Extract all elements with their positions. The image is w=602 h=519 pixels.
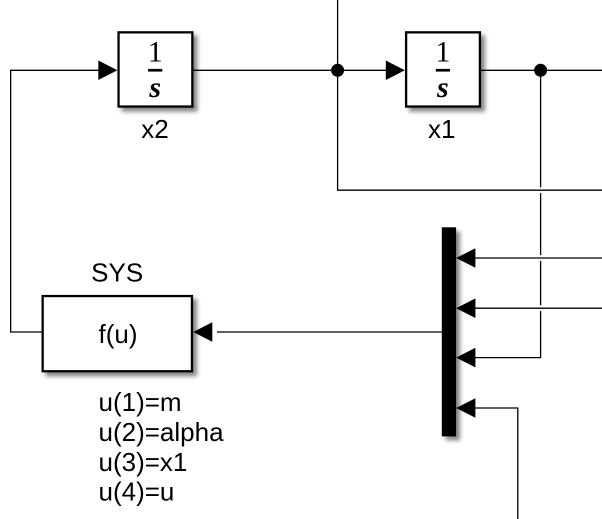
junction node on x2-x1 wire bbox=[331, 64, 344, 77]
arrowhead into mux input 3 bbox=[456, 348, 475, 368]
svg-text:u(4)=u: u(4)=u bbox=[99, 476, 175, 506]
junction node on x1 output wire bbox=[534, 64, 547, 77]
wire: x1 output to right edge bbox=[480, 69, 602, 71]
arrowhead into mux input 4 bbox=[456, 398, 475, 418]
svg-text:u(1)=m: u(1)=m bbox=[99, 387, 182, 417]
integrator block x1 bbox=[406, 32, 480, 106]
wire crossing gap at y=308 bbox=[538, 305, 543, 311]
svg-text:u(3)=x1: u(3)=x1 bbox=[99, 447, 188, 477]
svg-text:x2: x2 bbox=[141, 114, 168, 144]
arrowhead into f(u) input bbox=[193, 322, 212, 342]
arrowhead into x2 input bbox=[98, 61, 117, 81]
mux block bbox=[442, 227, 456, 436]
svg-text:s: s bbox=[436, 71, 449, 104]
wire crossing gap at y=258 bbox=[538, 255, 543, 261]
wire: from top edge through junction, down and right off right edge bbox=[338, 0, 602, 190]
arrowhead into mux input 2 bbox=[456, 298, 475, 318]
svg-text:1: 1 bbox=[435, 35, 450, 68]
arrowhead into mux input 1 bbox=[456, 248, 475, 268]
wire: mux input 1 from right edge bbox=[461, 257, 602, 259]
wire: feedback from f(u) output left and up to x2 input bbox=[11, 70, 100, 332]
wire: mux input 4 from bottom edge bbox=[461, 408, 518, 519]
svg-text:SYS: SYS bbox=[91, 257, 143, 287]
svg-text:f(u): f(u) bbox=[99, 319, 138, 349]
svg-text:1: 1 bbox=[148, 35, 163, 68]
svg-text:x1: x1 bbox=[428, 114, 455, 144]
wire: from x1-output junction down to mux input 3 (vertical run) bbox=[461, 70, 541, 357]
wire: mux output to f(u) input bbox=[217, 331, 442, 333]
wire: mux input 2 from right edge bbox=[461, 307, 602, 309]
wire crossing gap at y=190 bbox=[538, 187, 543, 193]
svg-text:u(2)=alpha: u(2)=alpha bbox=[99, 417, 225, 447]
fcn block f(u) SYS bbox=[43, 296, 192, 371]
svg-text:s: s bbox=[148, 71, 161, 104]
arrowhead into x1 input bbox=[386, 61, 405, 81]
wire: x2 output to x1 input bbox=[192, 69, 388, 71]
integrator block x2 bbox=[119, 32, 193, 106]
